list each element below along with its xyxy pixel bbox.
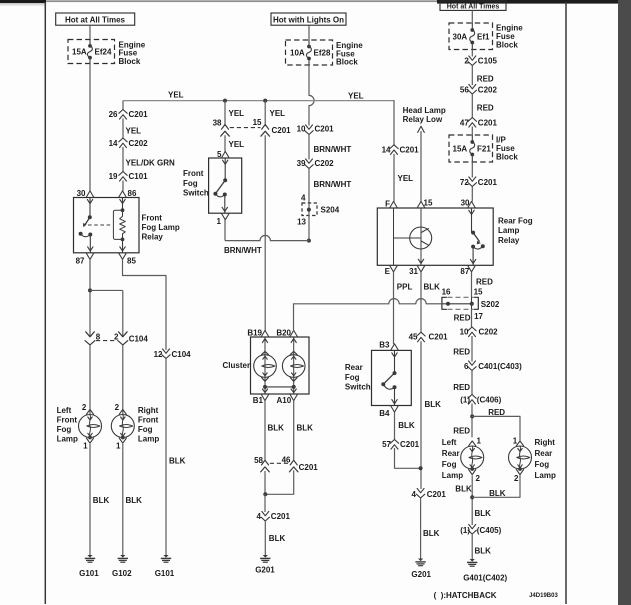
svg-text:Ef28: Ef28	[314, 49, 331, 58]
svg-text:C201: C201	[429, 333, 449, 342]
wire to connector C201-4	[264, 494, 266, 512]
svg-text:YEL: YEL	[229, 109, 245, 118]
svg-text:87: 87	[460, 267, 469, 276]
wire C201-15 to cluster pin B19	[264, 135, 266, 331]
svg-text:15A: 15A	[453, 144, 468, 153]
svg-text:16: 16	[442, 287, 451, 296]
wire C101-19 to front relay pin 86	[122, 181, 124, 192]
svg-text:10: 10	[297, 125, 306, 134]
svg-text:(C405): (C405)	[477, 526, 502, 535]
svg-text:1: 1	[513, 436, 518, 445]
junction dot rear lamp feed	[470, 414, 474, 418]
svg-text:BRN/WHT: BRN/WHT	[314, 145, 352, 154]
svg-text:C201: C201	[427, 490, 447, 499]
wire BLK to ground G201	[264, 521, 266, 555]
svg-text:1: 1	[477, 436, 482, 445]
svg-text:Lamp: Lamp	[442, 471, 463, 480]
wire branch to right front fog lamp	[90, 289, 123, 291]
svg-text:B3: B3	[379, 341, 390, 350]
svg-text:F: F	[385, 200, 390, 209]
wire BLK C201-45 down	[420, 341, 422, 489]
svg-text:85: 85	[127, 256, 136, 265]
connector C201 pins 58-46	[262, 460, 269, 465]
screen edge top-right black bar	[437, 0, 631, 4]
wire from Hot with Lights On to fuse Ef28	[308, 25, 310, 40]
svg-text:YEL: YEL	[270, 109, 286, 118]
junction dot front lamp branch	[88, 288, 92, 292]
svg-text:(C406): (C406)	[477, 395, 502, 404]
svg-text:2: 2	[114, 333, 119, 342]
left rear fog lamp	[469, 441, 476, 446]
connector C201 pin 45	[418, 337, 425, 341]
svg-text:BLK: BLK	[423, 529, 440, 538]
svg-text:Switch: Switch	[345, 383, 371, 392]
svg-text:G102: G102	[112, 569, 132, 578]
wire BRN/WHT C201-10 to C202-39	[308, 135, 310, 160]
svg-text:1: 1	[116, 441, 121, 450]
wire BLK left lamp to ground G101	[89, 444, 91, 555]
wire splice S202-16 to cluster B20 with hops	[426, 303, 442, 305]
svg-text:(1): (1)	[460, 395, 470, 404]
wire C104-2 to right front fog lamp	[122, 345, 124, 415]
connector C202 pin 10	[469, 332, 476, 336]
wire RED branch to right rear lamp	[472, 416, 520, 440]
svg-text:BLK: BLK	[297, 423, 314, 432]
svg-text:15: 15	[474, 287, 483, 296]
svg-text:4: 4	[301, 194, 306, 203]
svg-text:J4D19B03: J4D19B03	[529, 593, 558, 599]
wire BLK switch B4 down to C201-57	[394, 412, 396, 439]
svg-text:2: 2	[115, 403, 120, 412]
svg-text:Block: Block	[496, 152, 518, 161]
splice S204	[302, 203, 317, 216]
svg-text:72: 72	[460, 178, 469, 187]
rear relay driver transistor	[393, 208, 395, 265]
connector C201 pin 26	[120, 115, 127, 119]
svg-text:C202: C202	[478, 85, 498, 94]
svg-text:BLK: BLK	[268, 423, 285, 432]
label Hot at All Times (right)	[440, 1, 506, 10]
wire BLK branch from right rear lamp	[472, 476, 520, 498]
svg-text:Fog: Fog	[442, 460, 457, 469]
junction dot node YEL / cluster branch	[263, 99, 267, 103]
svg-text:BRN/WHT: BRN/WHT	[224, 246, 262, 255]
svg-text:E: E	[385, 267, 391, 276]
wire BLK to ground G201 (right)	[420, 498, 422, 559]
svg-text:BLK: BLK	[489, 489, 506, 498]
svg-text:Lamp: Lamp	[57, 434, 78, 443]
svg-text:Block: Block	[119, 57, 141, 66]
svg-text:58: 58	[254, 456, 263, 465]
wire to fuse Ef1	[471, 10, 473, 23]
svg-text:YEL: YEL	[168, 90, 184, 99]
svg-text:8: 8	[96, 333, 101, 342]
svg-text:Lamp: Lamp	[138, 434, 159, 443]
rear fog lamp relay	[377, 208, 493, 265]
connector (C406) pin (1)	[469, 400, 476, 404]
svg-text:C201: C201	[400, 440, 420, 449]
svg-text:G201: G201	[411, 570, 431, 579]
svg-text:38: 38	[213, 118, 222, 127]
wire Ef1 to C105-2	[471, 50, 473, 57]
svg-text:YEL: YEL	[398, 174, 414, 183]
svg-text:Ef24: Ef24	[95, 48, 112, 57]
wire C201-57 to BLK junction	[395, 449, 421, 469]
instrument cluster	[251, 337, 310, 394]
connector C201 pin 47	[469, 123, 476, 127]
svg-text:4: 4	[257, 512, 262, 521]
wire RED C105-2 to C202-56	[471, 66, 473, 86]
wire YEL C201-14 to rear relay pin F	[393, 154, 395, 202]
svg-text:Fog: Fog	[535, 460, 550, 469]
svg-text:Front: Front	[138, 415, 159, 424]
svg-text:YEL: YEL	[348, 92, 364, 101]
svg-text:RED: RED	[453, 426, 470, 435]
svg-text:Hot with Lights On: Hot with Lights On	[273, 16, 344, 25]
svg-text:Block: Block	[496, 40, 518, 49]
wire BLK cluster A10 down	[293, 401, 295, 460]
label Hot with Lights On	[271, 13, 346, 25]
svg-text:C201: C201	[271, 512, 291, 521]
svg-text:4: 4	[412, 490, 417, 499]
svg-text:1: 1	[216, 217, 221, 226]
wire hop of Ef28 line over YEL bus	[309, 95, 314, 105]
svg-text:C202: C202	[479, 327, 499, 336]
svg-text:BLK: BLK	[269, 534, 286, 543]
connector C104 pins 8-2	[86, 332, 95, 337]
rear relay contact	[471, 208, 473, 233]
svg-text:Relay: Relay	[498, 236, 520, 245]
ground G401(C402)	[470, 559, 475, 562]
wire BLK left rear lamp down	[471, 476, 473, 526]
connector C201 pins 38-15	[222, 125, 229, 130]
svg-text:RED: RED	[453, 383, 470, 392]
svg-text:Left: Left	[57, 406, 72, 415]
svg-text:17: 17	[474, 312, 483, 321]
svg-text:C104: C104	[172, 350, 192, 359]
fuse F21 15A	[449, 135, 493, 162]
front fog lamp relay	[74, 198, 140, 253]
svg-text:Rear: Rear	[442, 449, 460, 458]
ground G102	[120, 555, 125, 558]
svg-text:2: 2	[464, 57, 469, 66]
svg-text:2: 2	[476, 474, 481, 483]
svg-text:C101: C101	[129, 172, 149, 181]
svg-text:RED: RED	[488, 408, 505, 417]
wire BLK rear relay 31 down to C201-45	[420, 272, 422, 332]
svg-text:1: 1	[83, 441, 88, 450]
svg-text:86: 86	[128, 189, 137, 198]
wire BLK right lamp to ground G102	[122, 444, 124, 555]
ground G101 (left)	[87, 555, 92, 558]
svg-text:( ):HATCHBACK: ( ):HATCHBACK	[434, 591, 497, 600]
svg-text:C201: C201	[478, 178, 498, 187]
svg-text:BLK: BLK	[93, 496, 110, 505]
svg-text:Left: Left	[442, 438, 457, 447]
connector C105 pin 2	[469, 56, 476, 60]
svg-text:C201: C201	[315, 125, 335, 134]
svg-text:RED: RED	[477, 103, 494, 112]
svg-text:45: 45	[409, 333, 418, 342]
svg-text:B1: B1	[253, 396, 264, 405]
svg-text:C201: C201	[129, 110, 149, 119]
wire RED to C406	[471, 371, 473, 395]
wire BRN/WHT horizontal to hop	[225, 240, 260, 242]
wire YEL/DK GRN C202-14 to C101-19	[122, 147, 124, 172]
svg-text:G101: G101	[79, 569, 99, 578]
junction dot rear lamp return	[470, 495, 474, 499]
wire BRN/WHT switch pin 1 down	[224, 220, 226, 241]
wire Ef24 to front relay pin 30	[89, 64, 91, 192]
wire YEL bus corner down to C201-26	[122, 101, 124, 110]
svg-text:C401(C403): C401(C403)	[478, 362, 522, 371]
svg-text:Fog: Fog	[57, 425, 72, 434]
connector C201 pin 14	[391, 150, 398, 154]
svg-text:30A: 30A	[453, 32, 468, 41]
svg-text:RED: RED	[453, 347, 470, 356]
fuse Ef24 15A	[68, 40, 115, 64]
svg-text:Rear: Rear	[535, 449, 553, 458]
connector C202 pin 39	[306, 159, 313, 163]
svg-text:30: 30	[77, 189, 86, 198]
wire BRN/WHT horizontal hop to S204 node	[270, 240, 309, 242]
svg-text:RED: RED	[477, 74, 494, 83]
connector C202 pin 14	[120, 143, 127, 147]
screen edge right gray bar	[618, 0, 631, 605]
connector (C405) pin (1)	[469, 524, 476, 528]
svg-text:G201: G201	[255, 565, 275, 574]
wire RED C202-56 to C201-47	[471, 94, 473, 118]
svg-text:57: 57	[382, 440, 391, 449]
wire 46 down and left to merge node	[265, 471, 294, 494]
svg-text:RED: RED	[476, 277, 493, 286]
rear fog switch	[372, 350, 412, 405]
svg-text:Front: Front	[142, 214, 163, 223]
wire Ef28 down to hop	[308, 65, 310, 95]
wire RED S202-17 to C202-10	[471, 309, 473, 327]
svg-text:19: 19	[109, 172, 118, 181]
svg-text:C201: C201	[400, 145, 420, 154]
wire BRN/WHT C202-39 to splice S204	[308, 169, 310, 204]
cluster front fog indicator bulb	[264, 337, 266, 355]
svg-text:14: 14	[109, 139, 118, 148]
svg-text:G101: G101	[155, 569, 175, 578]
svg-text:26: 26	[109, 110, 118, 119]
wire RED to C401-6	[471, 336, 473, 362]
svg-text:Hot at All Times: Hot at All Times	[65, 16, 126, 25]
svg-text:BLK: BLK	[126, 496, 143, 505]
svg-text:39: 39	[297, 159, 306, 168]
cluster internal ground bus	[263, 385, 267, 389]
ground G201 (center)	[263, 555, 268, 558]
junction dot cluster returns	[263, 492, 267, 496]
ground G201 (right)	[418, 559, 423, 562]
wire F21 to C201-72	[471, 162, 473, 178]
svg-text:F21: F21	[477, 144, 491, 153]
connector C201 pin 4 (cluster ground path)	[262, 511, 269, 515]
svg-text:46: 46	[282, 455, 291, 464]
svg-text:Relay Low: Relay Low	[403, 115, 443, 124]
svg-text:Relay: Relay	[142, 233, 164, 242]
svg-text:Lamp: Lamp	[535, 471, 556, 480]
svg-text:Rear: Rear	[345, 363, 363, 372]
svg-text:Switch: Switch	[183, 189, 209, 198]
wire S204 down to BRN/WHT junction	[308, 216, 310, 241]
wire YEL bus horizontal	[123, 100, 394, 102]
connector C202 pin 56	[469, 84, 476, 88]
svg-text:S204: S204	[321, 206, 340, 215]
fuse Ef1 30A	[449, 23, 493, 50]
wire from Hot at All Times to fuse Ef24	[89, 25, 91, 39]
right front fog lamp	[119, 410, 126, 415]
svg-text:C201: C201	[299, 463, 319, 472]
svg-text:47: 47	[460, 118, 469, 127]
svg-text:BLK: BLK	[475, 509, 492, 518]
svg-text:15A: 15A	[72, 48, 87, 57]
svg-text:12: 12	[154, 350, 163, 359]
svg-text:Cluster: Cluster	[223, 361, 251, 370]
svg-text:5: 5	[217, 150, 222, 159]
svg-text:6: 6	[464, 362, 469, 371]
svg-text:10A: 10A	[290, 49, 305, 58]
svg-text:S202: S202	[481, 300, 500, 309]
junction dot BLK node	[419, 466, 423, 470]
svg-text:BLK: BLK	[475, 546, 492, 555]
svg-text:BLK: BLK	[398, 421, 415, 430]
svg-text:YEL/DK GRN: YEL/DK GRN	[126, 159, 176, 168]
svg-text:Head Lamp: Head Lamp	[403, 106, 446, 115]
svg-text:C104: C104	[129, 334, 149, 343]
svg-text:G401(C402): G401(C402)	[463, 573, 507, 582]
connector C101 pin 19	[120, 177, 127, 181]
wire front relay 85 to C104-12	[123, 260, 167, 350]
svg-text:Block: Block	[336, 58, 358, 67]
svg-text:31: 31	[409, 267, 418, 276]
svg-text:2: 2	[82, 403, 87, 412]
svg-text:14: 14	[382, 145, 391, 154]
svg-text:A10: A10	[277, 396, 292, 405]
svg-text:Front: Front	[183, 169, 204, 178]
connector C201 pin 10	[306, 125, 313, 129]
svg-text:(1): (1)	[460, 526, 470, 535]
svg-text:13: 13	[297, 218, 306, 227]
front relay actuation dashed link	[88, 224, 111, 226]
svg-text:B20: B20	[276, 329, 291, 338]
wire BLK to ground G401	[471, 534, 473, 559]
wire YEL connector 38 to switch pin 5	[224, 135, 226, 151]
svg-text:10: 10	[460, 327, 469, 336]
left front fog lamp	[86, 410, 93, 415]
svg-text:Front: Front	[57, 415, 78, 424]
svg-text:B19: B19	[247, 329, 262, 338]
wire RED to lamp feed node	[471, 404, 473, 438]
svg-text:YEL: YEL	[126, 127, 142, 136]
front fog switch	[209, 158, 242, 213]
cluster pins B1 and A10	[261, 394, 268, 400]
svg-text:BLK: BLK	[424, 282, 441, 291]
svg-text:PPL: PPL	[397, 282, 413, 291]
svg-text:C201: C201	[478, 118, 498, 127]
junction dot node YEL / front fog switch branch	[223, 99, 227, 103]
wire BLK to ground G101 right	[165, 359, 167, 556]
wire front relay 87 down	[89, 260, 91, 337]
cluster rear fog indicator bulb	[293, 337, 295, 355]
ground G101 (second)	[163, 555, 168, 558]
front relay coil and resistor	[122, 198, 124, 211]
svg-text:Fog: Fog	[345, 373, 360, 382]
svg-text:C201: C201	[272, 126, 292, 135]
connector C104 pin 12	[163, 349, 170, 353]
wire hop over cluster branch	[260, 235, 270, 240]
fuse Ef28 10A	[286, 40, 333, 65]
svg-text:Hot at All Times: Hot at All Times	[447, 4, 500, 11]
svg-text:15: 15	[253, 118, 262, 127]
wire head lamp relay low signal with arrow	[420, 131, 422, 202]
svg-text:2: 2	[514, 474, 519, 483]
svg-text:15: 15	[424, 199, 433, 208]
page border line right	[565, 2, 567, 604]
wire YEL bus corner down to C201-14	[393, 101, 395, 145]
svg-text:BLK: BLK	[455, 484, 472, 493]
svg-text:Right: Right	[138, 406, 159, 415]
svg-text:Lamp: Lamp	[498, 226, 519, 235]
svg-text:30: 30	[461, 198, 470, 207]
wire YEL branch to connector pin 15	[264, 101, 266, 125]
wire YEL C201-26 to C202-14	[122, 119, 124, 139]
screen edge top gray line	[46, 0, 437, 2]
screen edge top-left black bar	[0, 0, 46, 3]
svg-text:Rear Fog: Rear Fog	[498, 216, 533, 225]
svg-text:Right: Right	[535, 438, 556, 447]
wire C201-47 to fuse F21	[471, 127, 473, 136]
svg-text:C202: C202	[315, 159, 335, 168]
wire Ef28 hop to connector C201-10	[308, 106, 310, 126]
svg-text:RED: RED	[454, 313, 471, 322]
svg-text:87: 87	[76, 256, 85, 265]
wire C201-72 to rear relay pin 30	[471, 187, 473, 202]
label Hot at All Times (left)	[56, 13, 135, 25]
svg-text:YEL: YEL	[229, 140, 245, 149]
right rear fog lamp	[516, 441, 523, 446]
svg-text:C105: C105	[478, 57, 498, 66]
svg-text:C202: C202	[129, 139, 149, 148]
wire YEL branch to connector pin 38	[224, 101, 226, 125]
svg-text:B4: B4	[379, 409, 390, 418]
splice S202	[442, 297, 447, 309]
page border line left	[44, 2, 46, 604]
svg-text:BRN/WHT: BRN/WHT	[314, 180, 352, 189]
wire RED rear relay 87 down to splice S202	[471, 272, 473, 297]
svg-text:BLK: BLK	[169, 457, 186, 466]
junction dot BRN/WHT node	[307, 239, 311, 243]
connector C201 pin 57	[391, 445, 398, 449]
wire C104-8 to left front fog lamp	[89, 345, 91, 415]
svg-text:Fog Lamp: Fog Lamp	[142, 223, 180, 232]
connector C401(C403) pin 6	[469, 361, 476, 365]
svg-text:BLK: BLK	[425, 400, 442, 409]
svg-text:Fog: Fog	[138, 425, 153, 434]
svg-text:56: 56	[460, 85, 469, 94]
connector C201 pin 4 (rear)	[417, 488, 424, 492]
wire BLK cluster B1 down	[264, 401, 266, 460]
wire 58 down to merge node	[264, 471, 266, 494]
svg-text:Fog: Fog	[183, 179, 198, 188]
wire PPL rear relay E to switch B3	[393, 272, 395, 344]
connector C201 pin 72	[469, 177, 476, 181]
svg-text:Ef1: Ef1	[477, 32, 490, 41]
